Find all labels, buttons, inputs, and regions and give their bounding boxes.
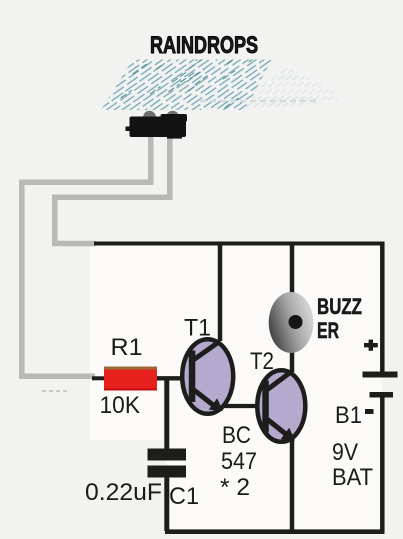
svg-text:9V: 9V	[332, 439, 358, 466]
svg-text:T1: T1	[184, 315, 211, 342]
svg-text:RAINDROPS: RAINDROPS	[150, 32, 258, 59]
svg-text:* 2: * 2	[220, 474, 250, 501]
svg-text:BC: BC	[222, 422, 251, 449]
svg-text:0.22uF: 0.22uF	[85, 479, 162, 506]
svg-text:C1: C1	[169, 483, 199, 510]
svg-text:R1: R1	[111, 334, 143, 361]
svg-text:10K: 10K	[100, 392, 141, 419]
svg-text:T2: T2	[250, 348, 274, 375]
svg-text:BUZZ: BUZZ	[317, 294, 362, 319]
svg-text:B1: B1	[335, 402, 362, 429]
svg-text:BAT: BAT	[332, 464, 373, 491]
svg-text:ER: ER	[317, 318, 339, 343]
svg-text:547: 547	[221, 448, 257, 475]
